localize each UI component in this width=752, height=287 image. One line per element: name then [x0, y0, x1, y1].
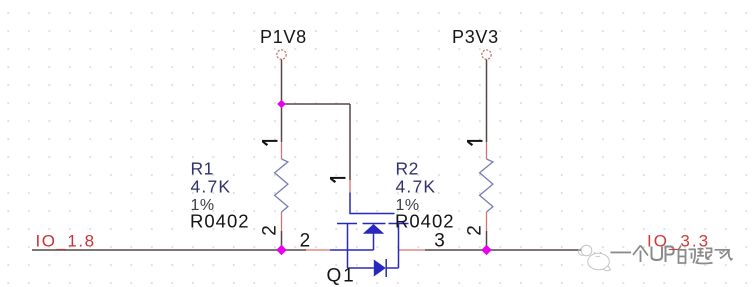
pin Q1.3 drain stub [399, 249, 426, 251]
junction node IO_3.3 rail [481, 245, 491, 255]
transistor Q1 [330, 193, 409, 278]
pin R2.1 stub [486, 142, 488, 159]
svg-text:R1: R1 [191, 159, 214, 179]
power symbol P3V3 [452, 27, 499, 59]
svg-text:R0402: R0402 [190, 211, 250, 232]
wire R2 bottom to rail [486, 231, 488, 250]
pin R1.1 stub [281, 142, 283, 159]
wire rail left IO_1.8 [32, 249, 306, 251]
watermark doodle [578, 245, 610, 271]
wire branch junction to gate, horizontal [282, 103, 351, 105]
svg-text:2: 2 [300, 230, 311, 251]
svg-text:P3V3: P3V3 [452, 27, 499, 47]
junction node P1V8/R1/gate [277, 100, 286, 109]
resistor R2 [480, 159, 493, 212]
wire gate branch vertical [349, 104, 351, 180]
wire P1V8 down to R1 [281, 60, 283, 143]
svg-text:Q1: Q1 [327, 266, 356, 287]
svg-text:R0402: R0402 [395, 211, 455, 232]
wire R1 bottom to rail [281, 231, 283, 250]
svg-text:IO_1.8: IO_1.8 [36, 232, 96, 251]
svg-text:4.7K: 4.7K [191, 177, 232, 197]
pin R2.2 stub [486, 212, 488, 231]
svg-text:IO_3.3: IO_3.3 [647, 232, 710, 251]
pin number Q1.1 [330, 177, 346, 183]
pin Q1.1 gate stub [349, 180, 351, 193]
svg-text:R2: R2 [396, 159, 419, 179]
svg-text:4.7K: 4.7K [396, 177, 437, 197]
svg-text:2: 2 [260, 225, 281, 236]
pin R1.2 stub [281, 212, 283, 231]
wire rail right IO_3.3 [487, 249, 582, 251]
svg-text:2: 2 [465, 225, 486, 236]
svg-text:3: 3 [434, 231, 445, 252]
resistor R1 [275, 159, 288, 212]
junction node IO_1.8 rail [276, 245, 286, 255]
pin Q1.2 source stub [306, 249, 330, 251]
wire Q1 drain to junction [425, 249, 487, 251]
pin number R2.1 [467, 140, 483, 146]
wire P3V3 down to R2 [486, 60, 488, 143]
svg-text:P1V8: P1V8 [260, 27, 307, 47]
power symbol P1V8 [260, 27, 307, 59]
pin number R1.1 [262, 140, 278, 146]
